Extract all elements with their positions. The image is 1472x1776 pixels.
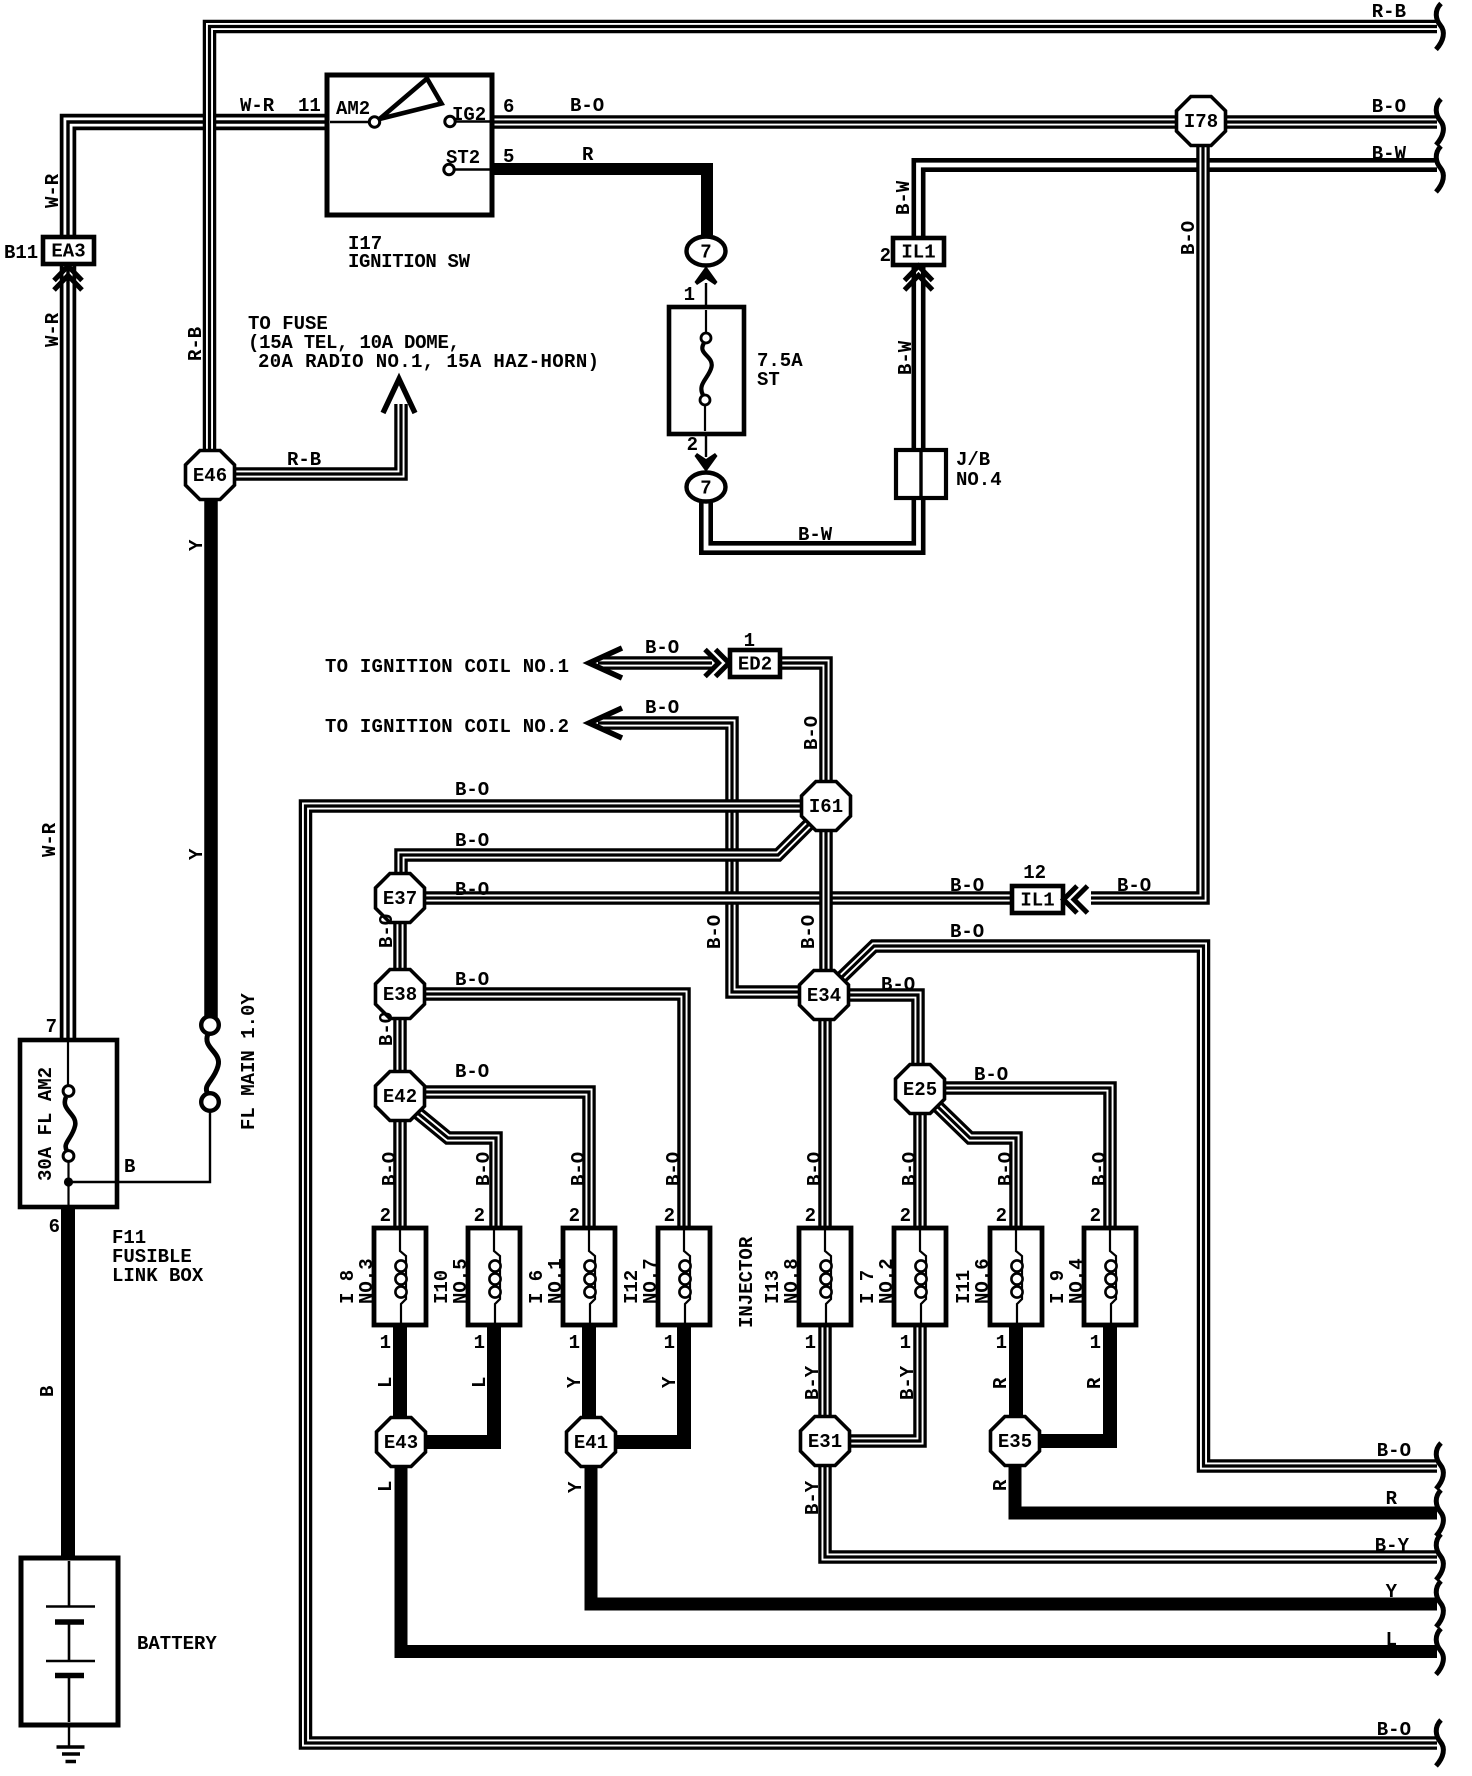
svg-text:INJECTOR: INJECTOR xyxy=(736,1236,758,1328)
svg-text:B-O: B-O xyxy=(645,697,679,719)
svg-text:B: B xyxy=(37,1386,59,1397)
svg-text:B-O: B-O xyxy=(881,974,915,996)
svg-text:J/B: J/B xyxy=(956,449,990,471)
svg-text:30A FL AM2: 30A FL AM2 xyxy=(35,1067,57,1181)
svg-text:B-O: B-O xyxy=(376,914,398,948)
rotated wire colour labels left column xyxy=(35,173,260,1397)
svg-text:6: 6 xyxy=(503,96,514,118)
svg-text:B-O: B-O xyxy=(1377,1440,1411,1462)
fusible link FL MAIN 1.0Y element xyxy=(201,1016,219,1111)
wire B-O from connector E38 to injector no.7 pin 2 xyxy=(425,994,684,1230)
svg-text:B-Y: B-Y xyxy=(802,1365,824,1400)
connector E46 xyxy=(186,451,235,500)
svg-text:B: B xyxy=(124,1156,135,1178)
label pin 2 at connector IL1 xyxy=(880,245,891,267)
svg-text:7: 7 xyxy=(700,478,711,500)
svg-text:E43: E43 xyxy=(384,1432,418,1454)
svg-text:E35: E35 xyxy=(998,1431,1032,1453)
wire B-O from connector E34 to connector E25 xyxy=(848,995,918,1066)
wire break symbols at right edge xyxy=(1436,4,1443,50)
connector E35 xyxy=(991,1417,1040,1466)
wire B-O from connector E42 diagonal to injector no.5 pin 2 xyxy=(414,1110,496,1230)
fuse 7.5A ST element xyxy=(700,310,712,431)
svg-text:L: L xyxy=(375,1481,397,1492)
svg-text:B-O: B-O xyxy=(379,1152,401,1186)
wire Y thick from connector E41 to right edge xyxy=(591,1466,1437,1604)
svg-text:IG2: IG2 xyxy=(452,104,486,126)
wire R-B from connector E46 up and across the top to right edge xyxy=(210,27,1438,453)
svg-text:2: 2 xyxy=(880,245,891,267)
wire B-Y from connector E31 to right edge xyxy=(825,1466,1437,1557)
wire B-O from connector E37 to connector IL1 pin 12 xyxy=(425,891,1013,905)
svg-text:NO.8: NO.8 xyxy=(781,1258,803,1304)
svg-text:B-O: B-O xyxy=(704,915,726,949)
svg-text:Y: Y xyxy=(186,539,208,551)
svg-text:B-O: B-O xyxy=(455,969,489,991)
connector I61 xyxy=(802,782,851,831)
svg-text:2: 2 xyxy=(900,1205,911,1227)
right edge bottom wire labels xyxy=(1375,1440,1411,1741)
svg-text:1: 1 xyxy=(900,1332,911,1354)
svg-text:B-O: B-O xyxy=(570,95,604,117)
svg-text:1: 1 xyxy=(380,1332,391,1354)
connector bottom wire colour labels L Y B-Y R xyxy=(375,1479,1012,1515)
svg-text:B-Y: B-Y xyxy=(802,1480,824,1515)
svg-text:E46: E46 xyxy=(193,465,227,487)
svg-text:1: 1 xyxy=(569,1332,580,1354)
injector pin numbers and name labels xyxy=(337,1152,1111,1354)
wire Y thick from injector no.1 pin 1 to connector E41 xyxy=(582,1325,596,1418)
svg-text:B-O: B-O xyxy=(376,1012,398,1046)
svg-text:L: L xyxy=(1386,1629,1397,1651)
ignition switch I17 box xyxy=(327,75,492,215)
wire Y thick from injector no.7 pin 1 to connector E41 xyxy=(616,1325,684,1442)
svg-text:12: 12 xyxy=(1023,862,1046,884)
connector E42 xyxy=(376,1072,425,1121)
svg-text:B-O: B-O xyxy=(804,1152,826,1186)
svg-text:B-O: B-O xyxy=(568,1152,590,1186)
svg-text:B-O: B-O xyxy=(801,716,823,750)
svg-text:IL1: IL1 xyxy=(1020,890,1054,912)
wire B-O from connector I61 left around bottom to right edge xyxy=(306,806,1438,1743)
svg-text:R-B: R-B xyxy=(1372,1,1406,23)
svg-text:B-O: B-O xyxy=(473,1152,495,1186)
svg-text:B-Y: B-Y xyxy=(1375,1535,1410,1557)
ignition switch IG2 terminal pin 6 xyxy=(445,116,490,126)
svg-text:7: 7 xyxy=(46,1016,57,1038)
injector I11 NO.6 xyxy=(990,1228,1042,1325)
svg-text:E41: E41 xyxy=(574,1432,608,1454)
svg-text:2: 2 xyxy=(380,1205,391,1227)
svg-text:Y: Y xyxy=(564,1376,586,1388)
svg-text:R-B: R-B xyxy=(287,449,321,471)
B-O wire colour labels right side xyxy=(881,875,1151,1086)
svg-text:E37: E37 xyxy=(383,888,417,910)
wire B-O from connector I61 down to connector E34 xyxy=(819,830,833,972)
svg-text:E42: E42 xyxy=(383,1086,417,1108)
ignition switch ST2 terminal pin 5 xyxy=(444,164,490,174)
svg-text:I61: I61 xyxy=(809,796,843,818)
wire Y thick from connector E46 down to fusible link FL MAIN xyxy=(204,498,218,1017)
svg-text:1: 1 xyxy=(684,284,695,306)
svg-text:B-O: B-O xyxy=(950,875,984,897)
connector ED2 xyxy=(730,650,780,677)
svg-text:B-W: B-W xyxy=(893,180,915,215)
svg-text:B-O: B-O xyxy=(995,1152,1017,1186)
connector ED2 arrow xyxy=(705,650,729,677)
wire B-Y from injector no.8 pin 1 to connector E31 xyxy=(818,1325,832,1418)
wire B-O connector E37 to E38 xyxy=(393,923,407,970)
label J/B NO.4 xyxy=(956,449,1002,491)
svg-text:BATTERY: BATTERY xyxy=(137,1633,217,1655)
svg-text:B11: B11 xyxy=(4,242,38,264)
fuse 7.5A ST box xyxy=(669,307,744,434)
svg-text:2: 2 xyxy=(1090,1205,1101,1227)
label I17 IGNITION SW xyxy=(348,233,471,273)
wire B-O from connector E42 to injector no.1 pin 2 xyxy=(425,1092,589,1230)
svg-text:W-R: W-R xyxy=(42,312,64,347)
svg-text:B-O: B-O xyxy=(950,921,984,943)
svg-text:B-O: B-O xyxy=(798,915,820,949)
svg-text:Y: Y xyxy=(565,1481,587,1493)
svg-text:NO.7: NO.7 xyxy=(640,1258,662,1304)
svg-text:B-O: B-O xyxy=(1117,875,1151,897)
wire B-O from connector ED2 down to connector I61 xyxy=(778,663,826,782)
svg-text:ST: ST xyxy=(757,369,780,391)
wire B-O to ignition coil no.2 from junction at connector E34 xyxy=(598,723,801,992)
svg-text:20A RADIO NO.1, 15A HAZ-HORN): 20A RADIO NO.1, 15A HAZ-HORN) xyxy=(258,351,599,373)
svg-text:I78: I78 xyxy=(1184,111,1218,133)
label R-B at connector E46 xyxy=(287,449,321,471)
svg-text:B-W: B-W xyxy=(895,340,917,375)
ignition switch AM2 terminal pin 11 xyxy=(330,117,380,127)
wire R thick from injector no.6 pin 1 to connector E35 xyxy=(1009,1325,1023,1418)
ground xyxy=(57,1747,85,1762)
wire B thick from fusible link box pin 6 to battery xyxy=(61,1206,75,1558)
wire thin fuse lead pin 2 from 7.5A ST fuse to connector 7 xyxy=(705,403,707,457)
svg-text:R: R xyxy=(990,1377,1012,1389)
connector 7 lower xyxy=(687,473,726,502)
injector I13 NO.8 xyxy=(799,1228,851,1325)
svg-text:B-O: B-O xyxy=(455,830,489,852)
injector I 6 NO.1 xyxy=(563,1228,615,1325)
injector I12 NO.7 xyxy=(658,1228,710,1325)
svg-text:B-O: B-O xyxy=(1178,221,1200,255)
label W-R and pin 11 at ignition switch xyxy=(240,95,321,117)
svg-text:B-O: B-O xyxy=(455,1061,489,1083)
svg-text:B-O: B-O xyxy=(455,879,489,901)
svg-text:1: 1 xyxy=(996,1332,1007,1354)
svg-text:Y: Y xyxy=(659,1376,681,1388)
svg-text:2: 2 xyxy=(687,434,698,456)
TO FUSE note text xyxy=(248,313,599,373)
svg-text:W-R: W-R xyxy=(240,95,275,117)
connector E34 xyxy=(800,971,849,1020)
svg-text:1: 1 xyxy=(744,630,755,652)
right edge wire labels R-B B-O B-W xyxy=(1372,1,1407,165)
svg-text:6: 6 xyxy=(49,1216,60,1238)
svg-text:TO IGNITION COIL NO.2: TO IGNITION COIL NO.2 xyxy=(325,716,569,738)
svg-text:B-O: B-O xyxy=(899,1152,921,1186)
svg-text:NO.6: NO.6 xyxy=(972,1258,994,1304)
svg-text:1: 1 xyxy=(805,1332,816,1354)
svg-text:R: R xyxy=(990,1479,1012,1491)
connector IL1 pin 12 xyxy=(1012,886,1063,913)
wire L thick from connector E43 to right edge xyxy=(401,1466,1437,1652)
svg-text:R: R xyxy=(1084,1377,1106,1389)
svg-text:7: 7 xyxy=(700,242,711,264)
svg-text:E31: E31 xyxy=(808,1431,842,1453)
wire L thick from injector no.3 pin 1 to connector E43 xyxy=(393,1325,407,1418)
svg-text:B-O: B-O xyxy=(1372,96,1406,118)
svg-text:B-O: B-O xyxy=(1089,1152,1111,1186)
svg-text:2: 2 xyxy=(569,1205,580,1227)
connector E37 xyxy=(376,874,425,923)
svg-text:E38: E38 xyxy=(383,984,417,1006)
wire R thick from injector no.4 pin 1 to connector E35 xyxy=(1040,1325,1110,1441)
svg-text:NO.4: NO.4 xyxy=(956,469,1002,491)
wire L thick from injector no.5 pin 1 to connector E43 xyxy=(426,1325,494,1442)
svg-text:AM2: AM2 xyxy=(336,98,370,120)
svg-text:W-R: W-R xyxy=(42,173,64,208)
svg-text:E25: E25 xyxy=(903,1079,937,1101)
svg-text:IGNITION SW: IGNITION SW xyxy=(348,251,471,273)
svg-text:2: 2 xyxy=(474,1205,485,1227)
svg-text:Y: Y xyxy=(186,848,208,860)
label INJECTOR xyxy=(736,1236,758,1328)
svg-text:R: R xyxy=(582,144,594,166)
battery box xyxy=(21,1558,118,1725)
svg-text:B-O: B-O xyxy=(455,779,489,801)
rotated wire colour labels middle area xyxy=(376,180,1200,1046)
svg-text:ED2: ED2 xyxy=(738,654,772,676)
svg-text:L: L xyxy=(469,1377,491,1388)
label B-W on junction block wire xyxy=(798,524,833,546)
TO IGNITION COIL labels xyxy=(325,630,755,738)
svg-text:1: 1 xyxy=(474,1332,485,1354)
wire thin fuse lead pin 1 into 7.5A ST fuse xyxy=(705,283,707,334)
svg-text:W-R: W-R xyxy=(39,822,61,857)
B-O wire colour labels left column xyxy=(455,779,489,1083)
injector pin 1 wire colour labels xyxy=(375,1365,1106,1400)
connector I78 xyxy=(1177,97,1226,146)
TO FUSE arrow xyxy=(383,379,415,413)
wire B-O from connector E25 down to injector no.2 pin 2 xyxy=(913,1112,927,1230)
svg-text:B-W: B-W xyxy=(798,524,833,546)
node junction dot in fusible link box xyxy=(64,1177,73,1186)
svg-text:R: R xyxy=(1386,1488,1398,1510)
wire B-O from connector E34 down to injector no.8 pin 2 xyxy=(818,1019,832,1230)
arrow to ignition coil no.2 xyxy=(589,708,622,738)
svg-text:NO.5: NO.5 xyxy=(450,1258,472,1304)
connector IL1 pin 2 arrow xyxy=(905,266,933,290)
svg-text:NO.3: NO.3 xyxy=(356,1258,378,1304)
svg-text:FL MAIN 1.0Y: FL MAIN 1.0Y xyxy=(238,993,260,1130)
connector 7 upper xyxy=(687,237,726,266)
connector E43 xyxy=(377,1418,426,1467)
wire R thick from connector E35 to right edge xyxy=(1015,1466,1437,1513)
connector IL1 pin 12 arrow xyxy=(1064,886,1088,913)
connector E25 xyxy=(896,1065,945,1114)
injector I10 NO.5 xyxy=(468,1228,520,1325)
wire B-O from connector I61 diagonal to connector E37 xyxy=(401,821,812,874)
svg-text:1: 1 xyxy=(664,1332,675,1354)
wire B-O from connector I78 down to connector IL1 pin 12 chevron xyxy=(1091,144,1203,898)
connector EA3 arrow xyxy=(54,266,82,290)
junction block J/B NO.4 box xyxy=(896,450,946,498)
wire thin from FL MAIN 1.0Y to 30A FL AM2 fuse output node xyxy=(69,1110,211,1182)
arrow to ignition coil no.1 xyxy=(589,648,622,678)
wire B-O from connector E25 diagonal to injector no.6 pin 2 xyxy=(935,1104,1016,1230)
wire B-O connector E38 to E42 xyxy=(393,1019,407,1072)
svg-text:NO.4: NO.4 xyxy=(1066,1258,1088,1304)
svg-text:EA3: EA3 xyxy=(51,241,85,263)
label BATTERY xyxy=(137,1633,217,1655)
ignition switch lever xyxy=(380,79,442,120)
label B11 at connector EA3 xyxy=(4,242,38,264)
svg-text:L: L xyxy=(375,1377,397,1388)
wire B-Y from injector no.2 pin 1 to connector E31 xyxy=(849,1325,920,1441)
svg-text:5: 5 xyxy=(503,146,514,168)
wire B-O from connector E25 to injector no.4 pin 2 xyxy=(943,1088,1110,1230)
wire B-O from ignition switch IG2 terminal pin 6 through connector I78 to right edge xyxy=(492,115,1437,129)
svg-text:NO.2: NO.2 xyxy=(876,1258,898,1304)
wire B-O from connector E42 down to injector no.3 pin 2 xyxy=(393,1120,407,1230)
wire thin battery internal and ground lead xyxy=(68,1557,70,1746)
ignition switch terminal labels AM2 IG2 ST2 xyxy=(336,95,604,169)
connector 7 lower arrow xyxy=(695,453,718,472)
wire R-B from connector E46 to TO FUSE arrow xyxy=(234,404,401,474)
fuse 30A FL AM2 element xyxy=(63,1042,75,1205)
svg-text:B-Y: B-Y xyxy=(897,1365,919,1400)
wire W-R from ignition switch AM2 terminal to connector EA3 and fusible link box pin 7 xyxy=(68,122,325,1040)
injector I 9 NO.4 xyxy=(1084,1228,1136,1325)
svg-text:B-O: B-O xyxy=(974,1064,1008,1086)
svg-text:B-O: B-O xyxy=(1377,1719,1411,1741)
connector E38 xyxy=(376,970,425,1019)
svg-text:TO IGNITION COIL NO.1: TO IGNITION COIL NO.1 xyxy=(325,656,569,678)
wire B-O from connector E34 diagonal to right edge B-O xyxy=(841,946,1437,1466)
svg-text:IL1: IL1 xyxy=(901,242,935,264)
connector IL1 pin 2 xyxy=(893,238,944,265)
wire R thick from ignition switch ST2 pin 5 to connector 7 xyxy=(492,169,707,235)
label pin 12 at connector IL1 xyxy=(1023,862,1046,884)
svg-text:Y: Y xyxy=(1386,1581,1398,1603)
connector 7 upper arrow xyxy=(695,266,718,285)
wire B-W from fuse ST through J/B NO.4 and connector IL1 pin 2 to right edge xyxy=(706,165,1437,548)
connector E31 xyxy=(801,1417,850,1466)
fusible link box F11 labels xyxy=(46,1016,204,1287)
injector I 7 NO.2 xyxy=(894,1228,946,1325)
svg-text:2: 2 xyxy=(996,1205,1007,1227)
svg-text:B-W: B-W xyxy=(1372,143,1407,165)
svg-text:E34: E34 xyxy=(807,985,841,1007)
svg-text:LINK BOX: LINK BOX xyxy=(112,1265,204,1287)
svg-text:B-O: B-O xyxy=(645,637,679,659)
svg-text:1: 1 xyxy=(1090,1332,1101,1354)
svg-text:2: 2 xyxy=(805,1205,816,1227)
fusible link box F11 xyxy=(20,1040,117,1207)
svg-text:NO.1: NO.1 xyxy=(545,1258,567,1304)
wire B-O to ignition coil no.1 from connector ED2 xyxy=(598,656,712,670)
svg-text:2: 2 xyxy=(664,1205,675,1227)
fuse 7.5A ST labels xyxy=(684,284,804,456)
connector EA3 (B11) xyxy=(43,237,94,264)
svg-text:ST2: ST2 xyxy=(446,147,480,169)
connector E41 xyxy=(567,1418,616,1467)
svg-text:R-B: R-B xyxy=(185,327,207,361)
svg-text:B-O: B-O xyxy=(663,1152,685,1186)
injector I 8 NO.3 xyxy=(374,1228,426,1325)
svg-text:11: 11 xyxy=(298,95,321,117)
